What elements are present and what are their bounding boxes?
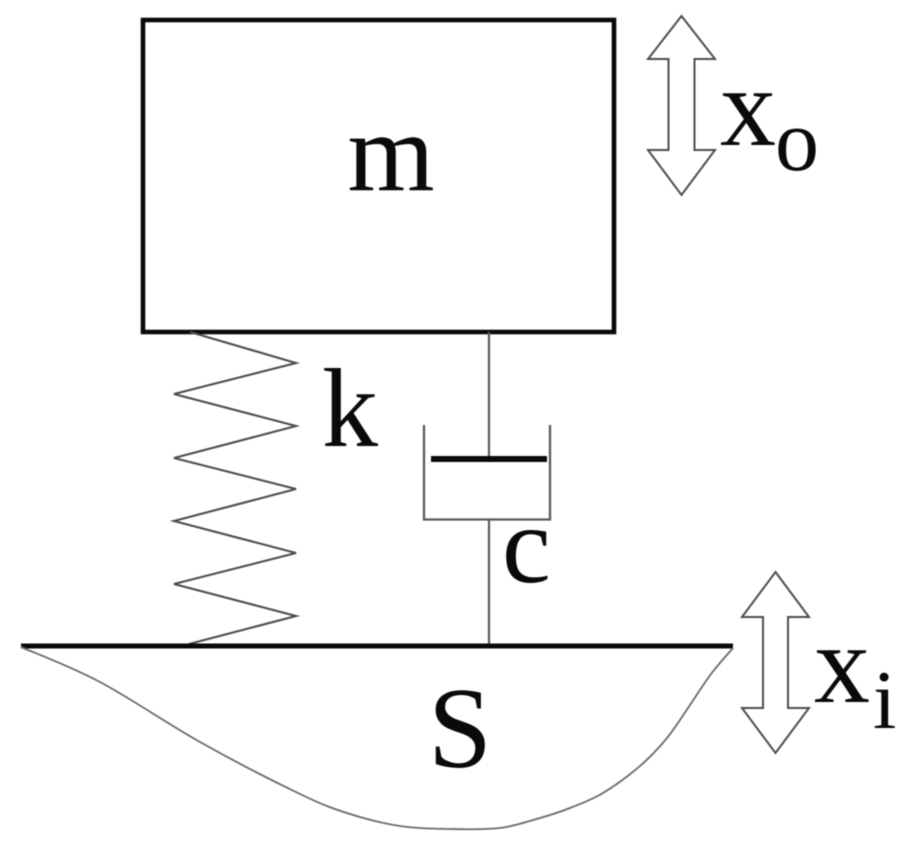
svg-text:c: c — [502, 484, 551, 606]
ground line S — [21, 644, 733, 649]
svg-text:x: x — [814, 603, 870, 727]
svg-text:i: i — [873, 654, 896, 747]
damper piston plate — [431, 456, 547, 462]
mass block m — [143, 20, 614, 332]
ground surface curve — [21, 647, 733, 829]
svg-text:S: S — [428, 665, 492, 792]
svg-text:m: m — [347, 91, 434, 215]
damper rod upper — [488, 332, 490, 459]
spring k — [174, 332, 296, 644]
svg-text:k: k — [322, 347, 378, 471]
damper rod lower — [488, 520, 490, 649]
arrow x_i (double headed vertical) — [742, 572, 809, 753]
svg-text:o: o — [775, 93, 819, 190]
damper cylinder cup — [424, 425, 550, 520]
svg-text:x: x — [720, 46, 776, 170]
arrow x_o (double headed vertical) — [648, 16, 715, 195]
